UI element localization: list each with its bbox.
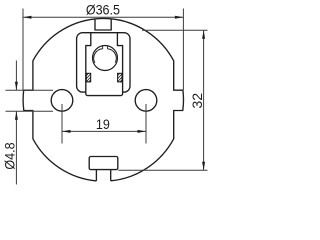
tick left <box>101 46 103 49</box>
arrow 32 top <box>202 30 205 39</box>
arrow dia36.5 right <box>175 16 184 19</box>
body outline: top arc over slot <box>95 17 111 19</box>
svg-text:Ø36.5: Ø36.5 <box>86 2 120 18</box>
body outline: right side arc, ear, walls <box>111 19 184 181</box>
ext line 4.8 bottom <box>6 110 54 112</box>
dim line 19 <box>62 130 146 132</box>
ext line bottom (32) <box>118 169 207 171</box>
svg-text:32: 32 <box>189 93 205 109</box>
central square (shutter housing) <box>77 33 130 92</box>
inner chamfer arc right <box>107 49 116 63</box>
body outline: left side arc, ear, walls <box>23 19 96 181</box>
arrow 4.8 down <box>15 82 18 91</box>
ext line left (dia 36.5) <box>22 9 24 91</box>
arrow 32 bottom <box>202 162 205 171</box>
svg-text:Ø4.8: Ø4.8 <box>2 142 18 169</box>
pin hole right <box>135 90 157 112</box>
bottom rectangle (clip housing) <box>89 157 118 170</box>
dim line 4.8 lower <box>15 111 17 184</box>
arrow 4.8 up <box>15 111 18 120</box>
bottom slot wall right <box>110 170 112 181</box>
ext line right (dia 36.5) <box>182 9 184 91</box>
hatch right <box>118 73 122 82</box>
pin hole left <box>51 90 73 112</box>
arrow 19 right <box>138 130 147 133</box>
ext line 4.8 top <box>6 89 54 91</box>
top slot (earth clip opening) <box>95 19 111 30</box>
ext line 19 right <box>145 104 147 144</box>
dim line dia36.5 <box>23 16 183 18</box>
svg-text:19: 19 <box>96 117 110 133</box>
inner T-shaped insert <box>86 33 123 96</box>
hatch left <box>86 73 90 82</box>
tick right <box>106 46 108 49</box>
center circle <box>93 46 118 71</box>
ext line 19 left <box>61 104 63 144</box>
ext line top (32) <box>142 29 208 31</box>
arrow dia36.5 left <box>23 16 32 19</box>
arrow 19 left <box>62 130 71 133</box>
inner chamfer arc left <box>94 49 103 63</box>
bottom slot wall left <box>95 170 97 181</box>
dim line 32 <box>203 30 205 170</box>
dim line 4.8 upper <box>15 61 17 91</box>
